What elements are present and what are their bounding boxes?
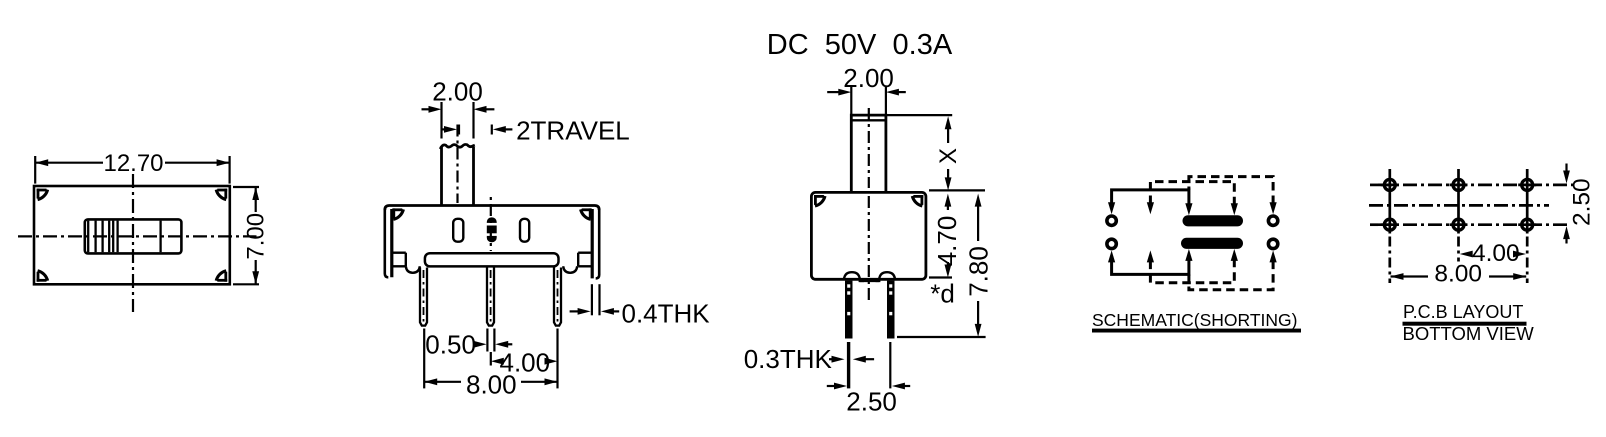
front view: right foot step xyxy=(578,253,592,267)
dimension 12.70: dimension line with arrows xyxy=(35,159,229,166)
dimension 4.70: dimension line with arrows xyxy=(945,194,952,278)
svg-text:0.4THK: 0.4THK xyxy=(622,299,711,329)
dimension 0.50: arrows xyxy=(474,341,513,348)
front view: left mounting bracket inner edge xyxy=(390,209,393,277)
front view: left slot xyxy=(453,219,463,242)
schematic: solid wire bottom-left position xyxy=(1108,249,1193,275)
top view: knob serration ridges xyxy=(88,221,117,253)
front view: body top edge xyxy=(385,206,599,211)
side view: switch body outline xyxy=(811,192,926,279)
svg-text:2TRAVEL: 2TRAVEL xyxy=(516,116,630,146)
pcb: hole middle row 2 xyxy=(1450,219,1468,230)
svg-text:2.00: 2.00 xyxy=(843,63,894,93)
side view: actuator tip second line xyxy=(851,119,886,121)
dimension 7.00: extension line top xyxy=(233,186,259,188)
travel annotation: left arrow and tick xyxy=(442,125,460,135)
dimension 12.70: extension line right xyxy=(229,156,231,184)
top view: switch body outline xyxy=(34,186,230,284)
pcb dimension 8.00: dimension line with arrows xyxy=(1391,273,1527,280)
front view: left pin relief arch xyxy=(406,266,420,273)
side view: corner mark top-right xyxy=(913,195,923,198)
dimension 0.50: extension lines at center pin edges xyxy=(487,329,494,352)
side view: body centerline xyxy=(868,196,870,300)
top view: horizontal centerline xyxy=(18,235,257,237)
pcb dimension 2.50: dimension line with arrows xyxy=(1563,164,1570,244)
svg-text:8.00: 8.00 xyxy=(1434,261,1482,288)
front view: middle slot white centerline gaps xyxy=(487,223,498,226)
front view: middle slot (filled) xyxy=(487,218,496,242)
front view: body vertical centerline xyxy=(490,197,492,251)
dimension 2.50 side: arrows xyxy=(827,383,910,390)
top view: vertical centerline xyxy=(132,174,134,312)
dimension X: extension line from actuator top xyxy=(886,114,952,116)
side view: corner mark top-left xyxy=(814,195,824,198)
travel annotation: right tick and arrow xyxy=(492,125,513,135)
svg-text:BOTTOM VIEW: BOTTOM VIEW xyxy=(1403,323,1535,344)
schematic: terminal circle bottom-left xyxy=(1107,239,1116,248)
pcb: row 1 centerline xyxy=(1370,184,1575,187)
front view: actuator centerline xyxy=(456,125,458,204)
svg-text:*d: *d xyxy=(930,278,955,308)
front view: actuator knob sides xyxy=(442,147,474,205)
schematic: dashed wire top middle position xyxy=(1147,182,1238,216)
svg-text:DC 50V 0.3A: DC 50V 0.3A xyxy=(767,29,953,61)
svg-text:0.50: 0.50 xyxy=(425,329,476,359)
pcb: hole right row 2 xyxy=(1518,219,1536,230)
front view: right slot xyxy=(520,219,529,242)
front view: right pin relief arch xyxy=(563,266,577,273)
pcb: hole middle row 1 xyxy=(1450,179,1468,190)
pcb: column middle vertical centerline xyxy=(1457,169,1460,262)
pcb: middle centerline xyxy=(1369,204,1549,207)
top view: corner mark top-left xyxy=(37,189,47,192)
dimension 2.50 side: extension line left pin xyxy=(847,342,850,388)
pcb: row 2 centerline xyxy=(1370,223,1570,226)
svg-text:7.80: 7.80 xyxy=(964,246,994,297)
schematic: terminal circle bottom-right xyxy=(1268,239,1277,248)
dimension 2.00 front: arrows xyxy=(422,106,495,113)
dimension 2.50 side: extension line right pin xyxy=(889,342,891,388)
dimension 4.00 front: extension line at center pin xyxy=(490,352,492,366)
dimension 7.00: dimension line with arrows xyxy=(252,187,259,284)
side view: actuator centerline xyxy=(868,108,870,188)
front view: right pin centerline xyxy=(557,270,559,323)
front view: terminal flange plate xyxy=(425,253,559,266)
side view: body top extension line xyxy=(929,189,985,191)
pcb: hole left row 2 xyxy=(1381,219,1399,230)
pcb: hole left row 1 xyxy=(1381,179,1399,190)
dimension 8.00 front: extension line right pin xyxy=(556,329,558,389)
top view: corner mark bottom-left xyxy=(37,279,47,282)
front view: right mounting bracket inner edge xyxy=(591,209,594,278)
svg-text:4.70: 4.70 xyxy=(932,216,962,267)
dimension X: dimension line with arrows xyxy=(945,116,952,190)
front view: center pin outline xyxy=(487,268,494,326)
dimension 8.00 front: dimension line with arrows xyxy=(424,378,557,385)
pcb caption underline xyxy=(1403,322,1527,326)
front view: left foot step xyxy=(392,253,406,267)
top view: corner mark top-right xyxy=(217,189,227,192)
side view: left pin relief arch xyxy=(844,272,864,281)
dimension 0.3THK: arrows xyxy=(829,356,874,363)
side view: pin bottom extension line xyxy=(897,336,986,338)
pcb dimension 4.00: arrows xyxy=(1460,251,1526,258)
front view: corner mark top-right xyxy=(582,208,592,211)
schematic: solid wire top-left position xyxy=(1108,190,1193,215)
dimension 4.00 front: arrows xyxy=(491,358,558,365)
pcb: column left vertical centerline xyxy=(1388,169,1391,283)
side view: right pin (filled) xyxy=(887,281,895,339)
svg-text:12.70: 12.70 xyxy=(103,150,163,177)
svg-text:P.C.B LAYOUT: P.C.B LAYOUT xyxy=(1403,302,1523,322)
svg-text:0.3THK: 0.3THK xyxy=(744,344,833,374)
svg-text:2.50: 2.50 xyxy=(1568,178,1595,226)
top view: slider knob outline xyxy=(85,219,182,253)
dimension 7.80: dimension line with arrows xyxy=(975,194,982,337)
svg-text:2.50: 2.50 xyxy=(846,386,897,416)
schematic: shorting bar bottom (filled) xyxy=(1181,238,1243,249)
schematic: terminal circle top-left xyxy=(1107,216,1116,225)
front view: actuator broken-line wavy top xyxy=(440,144,475,149)
side view: left pin centerline white dots xyxy=(847,284,850,315)
front view: center pin centerline xyxy=(490,270,492,323)
dimension 0.4THK: arrows xyxy=(570,308,620,315)
svg-text:X: X xyxy=(935,148,962,164)
schematic: shorting bar top (filled) xyxy=(1183,215,1244,226)
dimension 0.4THK: extension lines under right bracket xyxy=(592,284,600,315)
dimension 8.00 front: extension line left pin xyxy=(423,329,425,389)
dimension 7.00: extension line bottom xyxy=(233,283,259,285)
front view: right mounting bracket outer edge xyxy=(596,209,600,278)
side view: right pin centerline white dots xyxy=(889,284,892,315)
schematic: dashed wire bottom outer position xyxy=(1189,250,1277,289)
dimension 2.00 side: arrows xyxy=(827,89,906,96)
front view: left pin centerline xyxy=(423,270,425,323)
side view: body bottom extension line xyxy=(929,276,952,278)
front view: corner mark top-left xyxy=(392,208,402,211)
front view: left pin outline xyxy=(420,268,427,326)
svg-text:8.00: 8.00 xyxy=(466,369,517,399)
dimension 12.70: extension line left xyxy=(34,156,36,184)
front view: right pin outline xyxy=(554,268,561,326)
dimension 2.00 front: extension line right xyxy=(472,102,474,139)
schematic: terminal circle top-right xyxy=(1268,216,1277,225)
pcb: column right vertical centerline xyxy=(1526,169,1529,283)
svg-text:2.00: 2.00 xyxy=(432,77,483,107)
svg-text:SCHEMATIC(SHORTING): SCHEMATIC(SHORTING) xyxy=(1092,310,1297,330)
schematic: dashed wire bottom middle position xyxy=(1147,249,1238,283)
side view: right pin relief arch xyxy=(876,272,896,281)
front view: left mounting bracket outer edge xyxy=(385,209,389,277)
top view: corner mark bottom-right xyxy=(217,279,227,282)
schematic: dashed wire top outer position xyxy=(1189,177,1277,215)
dimension 2.00 side: extension lines xyxy=(851,86,886,116)
side view: left pin (filled) xyxy=(845,281,853,339)
schematic caption underline xyxy=(1092,329,1301,333)
top view: knob divider line xyxy=(159,221,161,253)
side view: inter-arch ledge xyxy=(860,280,879,282)
dimension 2.00 front: extension line left xyxy=(440,102,442,139)
pcb: hole right row 1 xyxy=(1518,179,1536,190)
side view: actuator outline xyxy=(851,115,886,192)
svg-text:7.00: 7.00 xyxy=(243,213,270,260)
